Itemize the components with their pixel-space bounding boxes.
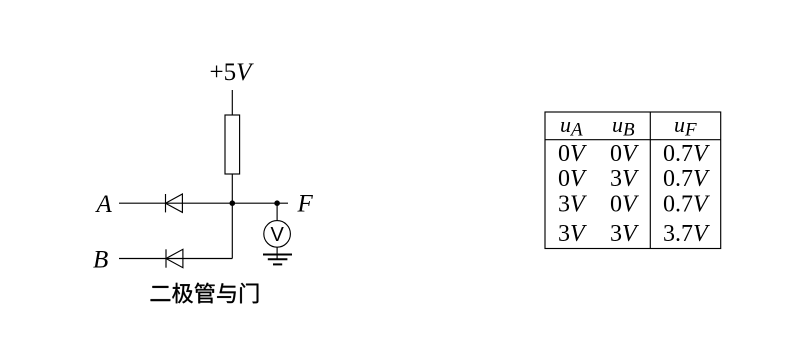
svg-text:3V: 3V (610, 221, 639, 247)
svg-text:uF: uF (674, 112, 697, 141)
svg-text:uB: uB (612, 112, 635, 141)
svg-text:F: F (297, 190, 314, 217)
svg-text:B: B (93, 247, 108, 274)
svg-text:0.7V: 0.7V (663, 191, 710, 217)
svg-text:0V: 0V (558, 141, 587, 167)
svg-text:3V: 3V (558, 191, 587, 217)
svg-text:3V: 3V (558, 221, 587, 247)
svg-text:0.7V: 0.7V (663, 141, 710, 167)
svg-text:uA: uA (560, 112, 583, 141)
svg-text:0.7V: 0.7V (663, 166, 710, 192)
svg-text:+5V: +5V (210, 59, 255, 86)
svg-text:0V: 0V (610, 191, 639, 217)
svg-text:3V: 3V (610, 166, 639, 192)
svg-text:0V: 0V (610, 141, 639, 167)
svg-text:3.7V: 3.7V (663, 221, 710, 247)
svg-text:V: V (271, 224, 285, 246)
svg-text:A: A (95, 191, 113, 218)
svg-text:0V: 0V (558, 166, 587, 192)
